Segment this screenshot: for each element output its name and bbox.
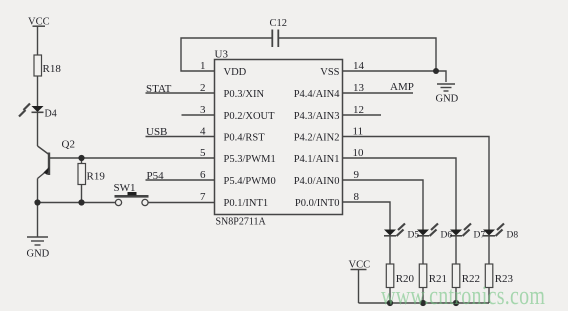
wire D6 to R21 <box>422 236 424 264</box>
switch SW1 <box>115 192 149 206</box>
svg-text:Q2: Q2 <box>62 139 75 151</box>
wire emitter to GND <box>37 203 39 237</box>
resistor R23 <box>485 264 493 288</box>
resistor R22 <box>452 264 460 288</box>
svg-text:GND: GND <box>27 249 50 260</box>
svg-text:P5.3/PWM1: P5.3/PWM1 <box>224 154 276 165</box>
wire R18 to D4 <box>37 76 39 106</box>
wire Q2 emitter down <box>37 179 39 203</box>
junction dot R19 bottom <box>78 199 84 205</box>
wire SW1 to pin7 <box>148 202 214 204</box>
svg-text:STAT: STAT <box>146 83 172 95</box>
svg-text:VSS: VSS <box>320 67 339 78</box>
wire pin2 STAT <box>146 92 215 94</box>
svg-text:2: 2 <box>200 82 206 94</box>
svg-text:www.cntronics.com: www.cntronics.com <box>381 282 545 311</box>
junction dot R20 rail <box>387 300 393 306</box>
svg-text:VCC: VCC <box>28 17 50 28</box>
capacitor C12 <box>272 30 278 48</box>
svg-text:U3: U3 <box>215 49 229 61</box>
resistor R20 <box>386 264 394 288</box>
svg-text:8: 8 <box>354 191 360 203</box>
svg-text:P0.4/RST: P0.4/RST <box>224 133 266 144</box>
svg-text:SW1: SW1 <box>114 182 136 194</box>
power VCC (top-left) <box>33 26 46 55</box>
wire D7 to R22 <box>455 236 457 264</box>
svg-text:9: 9 <box>354 169 360 181</box>
LED D4 <box>19 104 44 117</box>
wire C12 to VSS net <box>279 38 437 71</box>
transistor Q2 <box>38 146 50 179</box>
svg-text:D6: D6 <box>441 231 453 241</box>
wire pin10 to D7 <box>343 158 457 230</box>
wire D4 to Q2 collector <box>37 112 39 146</box>
power VCC (bottom-right) <box>351 270 367 304</box>
bottom rail wire <box>359 302 490 304</box>
svg-text:P4.3/AIN3: P4.3/AIN3 <box>294 111 340 122</box>
svg-text:R18: R18 <box>43 63 62 75</box>
ground GND (top-right) <box>437 84 455 91</box>
resistor R19 <box>78 164 86 185</box>
svg-text:1: 1 <box>200 60 206 72</box>
svg-text:3: 3 <box>200 104 206 116</box>
junction dot Q2 emitter/GND <box>34 199 40 205</box>
wire D8 to R23 <box>488 236 490 264</box>
svg-text:P54: P54 <box>147 170 165 182</box>
wire R19 drop <box>81 158 83 164</box>
wire R19 to bottom row <box>81 185 83 203</box>
op-amp U3 box <box>215 60 343 215</box>
svg-text:P0.0/INT0: P0.0/INT0 <box>295 198 340 209</box>
svg-text:P4.4/AIN4: P4.4/AIN4 <box>294 89 341 100</box>
svg-text:D4: D4 <box>45 109 57 120</box>
svg-text:P4.2/AIN2: P4.2/AIN2 <box>294 133 340 144</box>
LED D6 <box>417 224 438 237</box>
LED D7 <box>450 224 471 237</box>
svg-text:SN8P2711A: SN8P2711A <box>216 217 267 228</box>
svg-text:P0.2/XOUT: P0.2/XOUT <box>224 111 276 122</box>
svg-text:R19: R19 <box>87 171 106 183</box>
svg-text:P4.1/AIN1: P4.1/AIN1 <box>294 154 340 165</box>
svg-text:P0.1/INT1: P0.1/INT1 <box>224 198 269 209</box>
LED D8 <box>483 224 504 237</box>
wire pin14 VSS to GND <box>343 71 447 82</box>
wire pin4 USB <box>146 136 215 138</box>
svg-text:D8: D8 <box>507 231 519 241</box>
resistor R21 <box>419 264 427 288</box>
svg-text:11: 11 <box>353 126 364 138</box>
wire pin13 AMP <box>343 92 414 94</box>
svg-text:4: 4 <box>200 126 206 138</box>
svg-text:AMP: AMP <box>390 81 414 93</box>
ground GND (bottom-left) <box>27 237 48 245</box>
junction dot R22 rail <box>453 300 459 306</box>
svg-text:P5.4/PWM0: P5.4/PWM0 <box>224 176 276 187</box>
svg-text:D5: D5 <box>408 231 420 241</box>
svg-text:6: 6 <box>200 169 206 181</box>
pin numbers <box>200 60 365 203</box>
wire Q2 base to pin5 <box>49 157 215 159</box>
wire pin9 to D6 <box>343 180 424 230</box>
wire bottom-left row <box>38 202 116 204</box>
wire pin1 VDD loop <box>181 38 272 71</box>
svg-text:VDD: VDD <box>224 67 247 78</box>
wire pin3 stub <box>182 114 215 116</box>
svg-text:VCC: VCC <box>349 260 371 271</box>
wire D5 to R20 <box>389 236 391 264</box>
svg-text:D7: D7 <box>474 231 486 241</box>
svg-text:USB: USB <box>146 126 167 138</box>
svg-text:P4.0/AIN0: P4.0/AIN0 <box>294 176 340 187</box>
wire pin11 to D8 <box>343 137 490 230</box>
junction dot R19 top <box>78 155 84 161</box>
svg-text:12: 12 <box>353 104 364 116</box>
svg-text:10: 10 <box>353 147 365 159</box>
junction dot R21 rail <box>420 300 426 306</box>
svg-text:13: 13 <box>353 82 365 94</box>
wires resistors to bottom rail <box>389 288 391 304</box>
svg-text:7: 7 <box>200 191 206 203</box>
IC pin names <box>224 67 341 209</box>
LED D5 <box>384 224 405 237</box>
svg-text:5: 5 <box>200 147 206 159</box>
svg-text:GND: GND <box>436 94 459 105</box>
resistor R18 <box>34 55 42 76</box>
wire pin12 stub <box>343 114 382 116</box>
svg-text:C12: C12 <box>270 18 288 29</box>
junction dot VSS/C12 <box>433 68 439 74</box>
wire pin8 to D5 <box>343 202 391 230</box>
svg-text:P0.3/XIN: P0.3/XIN <box>224 89 265 100</box>
svg-text:14: 14 <box>353 60 365 72</box>
wire pin6 P54 <box>146 179 215 181</box>
